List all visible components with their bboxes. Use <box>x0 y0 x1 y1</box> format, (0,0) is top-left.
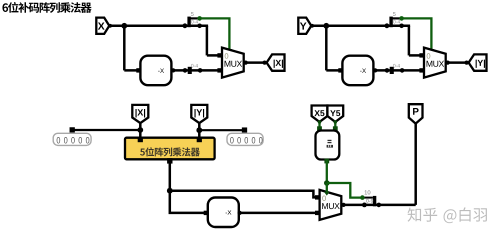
splitter -Y[0-4] <box>385 68 390 73</box>
mux U2 <box>424 48 446 78</box>
input pin |X| (abs X) <box>132 105 148 123</box>
wire Y[0-4] to MUX <box>409 54 424 57</box>
wire sign to MUX select <box>326 183 328 193</box>
node |Y| tee <box>196 127 202 133</box>
xor output pin <box>324 159 329 164</box>
wire Y[0-4] down <box>408 26 411 56</box>
wire sign down (green) <box>326 160 328 184</box>
wire X down to negator <box>123 26 126 71</box>
wire -X out <box>172 69 223 72</box>
wire X[0-4] to MUX <box>207 54 222 57</box>
probe display right (00000) <box>227 133 263 145</box>
wire Y5 (green) <box>334 122 336 131</box>
wire product to MUX in0 <box>170 191 320 198</box>
mux U1 <box>222 48 244 78</box>
negator -Y <box>342 56 373 85</box>
output pin P (product) <box>409 104 423 123</box>
splitter Y[5] / Y[0-4] <box>385 23 390 28</box>
wire sign to splitter bit10 (green) <box>327 183 362 198</box>
pin multiplier product out <box>167 158 172 163</box>
title text 6位补码阵列乘法器 <box>2 2 91 13</box>
wire to P <box>414 123 417 204</box>
input pin Y <box>298 18 311 34</box>
wire |X| out <box>244 61 267 64</box>
wire X main <box>109 25 208 28</box>
node Y junction <box>323 23 329 29</box>
wire product down <box>169 159 172 190</box>
splitter -X[0-4] <box>183 68 188 73</box>
pin |Y| into multiplier <box>197 137 202 142</box>
right probe pin <box>242 127 247 132</box>
probe display left (00000) <box>53 133 91 145</box>
subcircuit 5位阵列乘法器 (5-bit array multiplier) <box>125 138 215 160</box>
node product tee <box>167 188 173 194</box>
wire product out <box>341 204 415 207</box>
wire |Y| out <box>446 61 469 64</box>
output pin |Y| <box>469 54 487 70</box>
output pin |X| <box>267 54 285 70</box>
negator -X <box>140 56 171 85</box>
node |X| tee <box>137 127 143 133</box>
wire |X| down <box>139 123 142 139</box>
watermark 知乎 @白羽 <box>408 207 487 223</box>
wire Y down to negator <box>325 26 328 71</box>
node sign tee (green) <box>324 180 330 186</box>
wire -Y out <box>374 69 425 72</box>
wire X[0-4] down <box>206 26 209 56</box>
wire X5 (green) <box>318 122 320 131</box>
input pin X5 (sign of X) <box>312 106 328 122</box>
wire product to negator <box>170 191 208 213</box>
mux U3 sign-select <box>320 190 342 220</box>
left probe pin <box>70 127 75 132</box>
wire Y[5] select (green) <box>399 16 404 21</box>
splitter X[5] / X[0-4] <box>183 23 188 28</box>
node X junction <box>121 23 127 29</box>
input pin Y5 (sign of Y) <box>327 106 343 122</box>
negator -P <box>208 198 239 228</box>
wire -product to MUX in1 <box>238 212 320 215</box>
splitter combine [0-9]+[10] <box>362 203 367 208</box>
wire to right probe <box>199 129 244 131</box>
wire |Y| down <box>198 123 201 139</box>
pin |X| into multiplier <box>138 137 143 142</box>
wire Y main <box>311 25 410 28</box>
input pin X <box>96 18 109 34</box>
wire X[5] select (green) <box>197 16 202 21</box>
xor gate U4 (sign = X5 xor Y5) <box>316 131 340 160</box>
input pin |Y| (abs Y) <box>191 105 207 123</box>
wire to left probe <box>72 129 140 131</box>
